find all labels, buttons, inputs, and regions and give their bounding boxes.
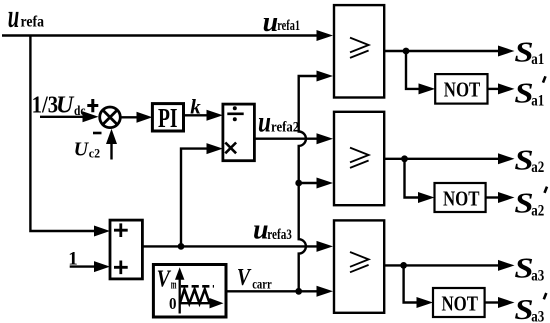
svg-text:a1: a1 bbox=[531, 93, 544, 110]
svg-text:NOT: NOT bbox=[444, 78, 481, 102]
wire carrier branch to comparator U3 input 2 bbox=[299, 182, 318, 184]
svg-text:refa3: refa3 bbox=[267, 227, 292, 243]
junction node out U3 bbox=[401, 155, 408, 162]
svg-text:a2: a2 bbox=[531, 202, 544, 219]
label Vm bbox=[157, 266, 177, 292]
svg-text:U: U bbox=[74, 138, 90, 160]
label Uc2 bbox=[74, 138, 101, 160]
wire comparator U3 output to Sa2 bbox=[384, 158, 499, 160]
svg-text:carr: carr bbox=[252, 276, 272, 291]
wire u_refa3 from adder to comparator U4 bbox=[142, 245, 318, 247]
NOT gate N2 bbox=[435, 183, 486, 212]
summing junction (circle with X) bbox=[100, 107, 121, 128]
dashed peak line bbox=[181, 285, 214, 288]
svg-text:u: u bbox=[263, 7, 279, 38]
arrow into comparator U1 input 1 bbox=[317, 30, 334, 41]
label Vcarr bbox=[237, 265, 272, 292]
geq symbol U4 bbox=[350, 252, 369, 272]
arrow into adder input 1 bbox=[94, 226, 110, 237]
svg-text:refa2: refa2 bbox=[271, 120, 299, 136]
H axis bbox=[180, 302, 212, 304]
svg-text:m: m bbox=[171, 276, 177, 291]
carrier bus vertical with hops bbox=[299, 76, 318, 291]
NOT gate N3 bbox=[433, 288, 485, 317]
wire u_refa vertical drop to adder bbox=[30, 36, 97, 232]
svg-text:NOT: NOT bbox=[442, 292, 479, 316]
junction node carrier/Vcarr bbox=[295, 288, 302, 295]
svg-text:u: u bbox=[253, 215, 269, 246]
plus sign bottom bbox=[114, 261, 128, 275]
divide symbol bbox=[227, 113, 243, 116]
junction node out U1 bbox=[403, 48, 410, 55]
triangle waveform bbox=[180, 289, 210, 303]
label u_refa1 bbox=[263, 7, 300, 38]
junction node on u_refa3 wire bbox=[178, 243, 185, 250]
label k bbox=[190, 94, 201, 118]
comparator U4 block bbox=[334, 220, 384, 312]
label Sa2' bbox=[514, 187, 547, 220]
wire 1/3Udc into summer bbox=[40, 116, 84, 118]
wire u_refa2 from divider to comparator U3 bbox=[254, 137, 318, 139]
svg-text:u: u bbox=[8, 0, 20, 35]
label Sa1 bbox=[514, 36, 544, 68]
label Sa2 bbox=[514, 144, 544, 176]
junction node out U4 bbox=[400, 262, 407, 269]
svg-text:0: 0 bbox=[169, 294, 177, 313]
svg-text:u: u bbox=[258, 106, 271, 139]
svg-text:a2: a2 bbox=[531, 159, 544, 176]
label Sa3' bbox=[514, 293, 546, 323]
label Sa3 bbox=[514, 253, 544, 285]
wire u_refa top horizontal bbox=[2, 34, 318, 36]
comparator U1 block bbox=[334, 5, 384, 97]
svg-text:refa1: refa1 bbox=[277, 18, 300, 34]
label 1 bbox=[68, 248, 78, 269]
svg-text:c2: c2 bbox=[89, 145, 100, 160]
svg-text:NOT: NOT bbox=[443, 187, 480, 211]
label Sa1' bbox=[514, 76, 545, 109]
wire Vcarr output to comparator U4 input 2 bbox=[226, 290, 318, 292]
svg-text:V: V bbox=[237, 265, 252, 291]
svg-text:a3: a3 bbox=[531, 308, 544, 323]
comparator U3 block bbox=[334, 112, 384, 205]
label u_refa2 bbox=[258, 106, 299, 139]
wire from u_refa3 node up into multiplier input bbox=[181, 149, 208, 247]
svg-text:U: U bbox=[56, 92, 75, 118]
label 0 bbox=[169, 294, 177, 313]
wire NOT1 output bbox=[488, 88, 501, 90]
svg-text:refa: refa bbox=[21, 13, 45, 30]
wire branch to NOT1 bbox=[406, 51, 420, 89]
svg-text:PI: PI bbox=[158, 103, 178, 133]
plus sign at summer input bbox=[87, 99, 98, 112]
adder block A1 bbox=[110, 220, 142, 279]
wire constant 1 into adder bbox=[70, 265, 97, 267]
svg-text:1/3: 1/3 bbox=[32, 92, 58, 118]
label u_refa bbox=[8, 0, 44, 35]
wire summer to PI bbox=[122, 116, 140, 118]
wire PI to divider bbox=[184, 114, 209, 116]
wire comparator U1 output to Sa1 bbox=[384, 50, 499, 52]
geq symbol U3 bbox=[350, 148, 369, 168]
junction node carrier/comp2 bbox=[295, 180, 302, 187]
minus sign bbox=[93, 132, 102, 135]
V axis bbox=[179, 278, 181, 314]
wire Uc2 stub into summer bbox=[110, 142, 112, 160]
NOT gate N1 bbox=[435, 74, 487, 104]
wire NOT3 output bbox=[485, 301, 500, 303]
wire comparator U4 output to Sa3 bbox=[384, 264, 499, 266]
label u_refa3 bbox=[253, 215, 292, 246]
PI block bbox=[152, 104, 183, 131]
arrow carrier into comparator U1 input 2 bbox=[317, 71, 334, 82]
divider-multiplier block U2 bbox=[223, 104, 255, 161]
wire branch to NOT2 bbox=[405, 159, 420, 198]
plus sign top bbox=[114, 223, 128, 237]
label 1/3Udc bbox=[32, 92, 86, 119]
svg-text:V: V bbox=[157, 266, 172, 292]
wire NOT2 output bbox=[486, 196, 500, 198]
multiply symbol bbox=[225, 143, 236, 154]
wire branch to NOT3 bbox=[404, 265, 418, 302]
svg-text:a1: a1 bbox=[531, 51, 544, 68]
geq symbol U1 bbox=[350, 38, 369, 58]
carrier generator block G1 bbox=[153, 265, 226, 318]
svg-text:a3: a3 bbox=[531, 267, 544, 284]
